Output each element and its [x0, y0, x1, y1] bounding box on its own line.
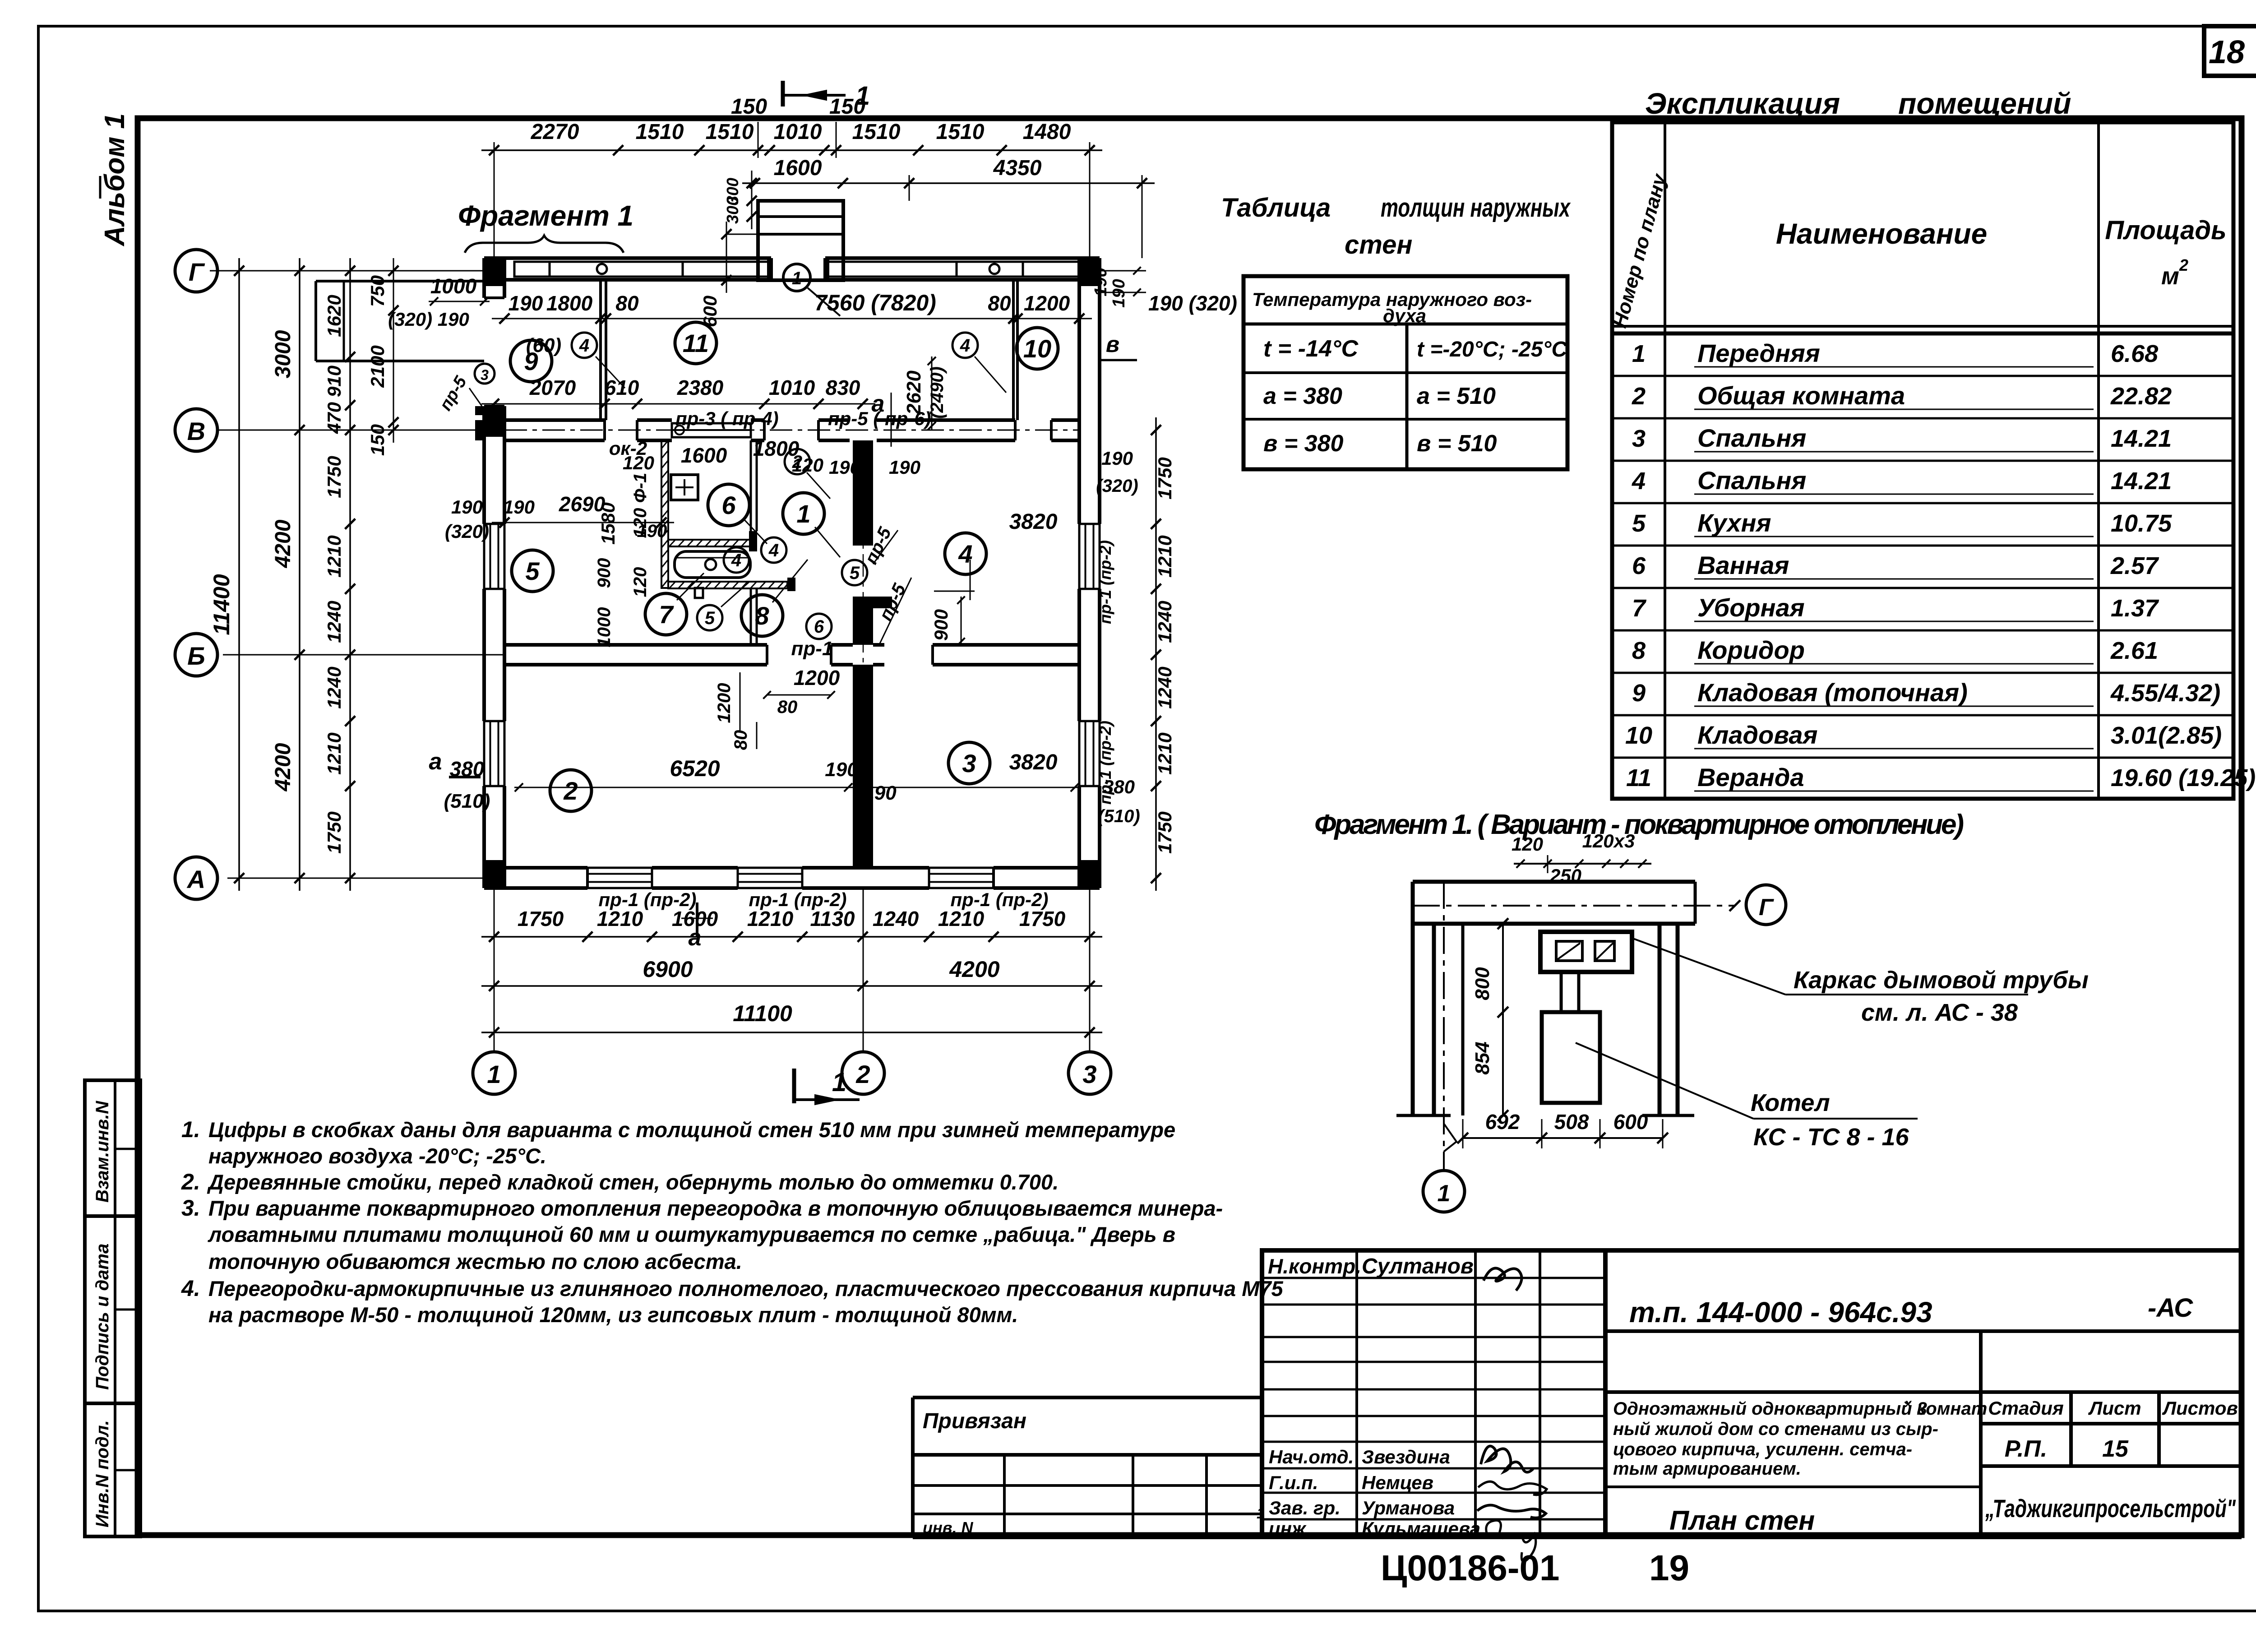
svg-text:190: 190 [889, 457, 920, 478]
svg-text:10.75: 10.75 [2111, 510, 2172, 537]
svg-text:3: 3 [962, 749, 976, 777]
svg-text:11400: 11400 [209, 574, 234, 635]
svg-text:7560 (7820): 7560 (7820) [814, 290, 936, 315]
svg-text:1580: 1580 [597, 502, 619, 544]
svg-text:8: 8 [1632, 637, 1646, 664]
svg-text:4200: 4200 [271, 743, 295, 791]
svg-text:Султанов: Султанов [1362, 1254, 1474, 1278]
svg-text:(320) 190: (320) 190 [388, 309, 469, 330]
svg-text:Спальня: Спальня [1697, 466, 1806, 495]
svg-text:Площадь: Площадь [2105, 216, 2226, 245]
svg-text:Урманова: Урманова [1362, 1497, 1455, 1518]
svg-text:1: 1 [832, 1068, 846, 1097]
svg-text:190: 190 [503, 496, 535, 518]
svg-text:4: 4 [768, 541, 779, 560]
svg-text:1240: 1240 [1154, 601, 1175, 643]
svg-text:1210: 1210 [1154, 732, 1175, 774]
svg-text:Зав. гр.: Зав. гр. [1269, 1497, 1341, 1518]
svg-text:9: 9 [524, 347, 538, 375]
svg-text:1750: 1750 [1154, 811, 1175, 853]
svg-text:5: 5 [850, 563, 860, 583]
svg-text:а: а [429, 749, 442, 775]
svg-text:А: А [186, 865, 205, 893]
svg-text:80: 80 [731, 730, 751, 750]
svg-text:1510: 1510 [852, 120, 901, 144]
svg-text:4200: 4200 [949, 957, 999, 982]
svg-text:тым армированием.: тым армированием. [1613, 1459, 1801, 1479]
svg-text:3820: 3820 [1009, 510, 1058, 534]
svg-text:11100: 11100 [733, 1001, 792, 1026]
svg-text:8: 8 [755, 602, 769, 630]
svg-text:в = 510: в = 510 [1417, 430, 1497, 457]
svg-text:190 (320): 190 (320) [1148, 292, 1237, 315]
svg-text:топочную обиваются жестью: топочную обиваются жестью по слою асбест… [208, 1249, 742, 1273]
svg-text:120: 120 [630, 567, 650, 597]
svg-text:ловатными плитами толщиной: ловатными плитами толщиной 60 мм и оштук… [208, 1222, 1175, 1246]
svg-text:Одноэтажный одноквартирный 3: Одноэтажный одноквартирный 3 [1613, 1399, 1927, 1419]
svg-text:а = 380: а = 380 [1263, 383, 1342, 409]
svg-text:5: 5 [1632, 510, 1646, 537]
svg-text:1210: 1210 [324, 535, 345, 577]
svg-text:3: 3 [1082, 1060, 1096, 1088]
svg-text:1: 1 [1438, 1180, 1451, 1207]
svg-text:(320): (320) [1096, 476, 1138, 496]
svg-text:1000: 1000 [594, 607, 614, 648]
svg-text:в: в [1106, 332, 1119, 357]
svg-text:6: 6 [814, 617, 824, 637]
svg-text:1210: 1210 [1154, 535, 1175, 577]
svg-text:Немцев: Немцев [1362, 1472, 1433, 1493]
svg-text:1210: 1210 [938, 907, 985, 930]
svg-text:18: 18 [2209, 34, 2245, 70]
svg-text:6: 6 [721, 491, 736, 519]
svg-text:стен: стен [1345, 230, 1412, 259]
svg-text:19: 19 [1649, 1548, 1689, 1588]
svg-text:7: 7 [1632, 595, 1647, 622]
svg-text:Б: Б [187, 642, 205, 670]
svg-text:1.: 1. [181, 1117, 200, 1142]
svg-text:120 Ф-1: 120 Ф-1 [630, 473, 650, 538]
svg-text:120х3: 120х3 [1582, 830, 1635, 851]
svg-text:х: х [1904, 1396, 1912, 1410]
svg-text:1200: 1200 [714, 683, 734, 723]
svg-text:а = 510: а = 510 [1417, 383, 1496, 409]
svg-text:4200: 4200 [271, 519, 295, 568]
svg-text:комнат: комнат [1917, 1399, 1987, 1419]
svg-text:Передняя: Передняя [1697, 339, 1820, 367]
svg-text:см. л. АС - 38: см. л. АС - 38 [1861, 999, 2018, 1026]
svg-text:1: 1 [796, 500, 810, 528]
svg-text:2: 2 [792, 452, 802, 472]
svg-text:2100: 2100 [367, 345, 388, 388]
svg-text:380: 380 [450, 757, 485, 781]
svg-text:5: 5 [525, 557, 540, 585]
svg-text:План стен: План стен [1669, 1505, 1815, 1536]
svg-text:Уборная: Уборная [1697, 593, 1805, 622]
svg-text:„Таджикгипросельстрой": „Таджикгипросельстрой" [1985, 1494, 2236, 1522]
svg-text:610: 610 [605, 376, 639, 399]
svg-text:19.60 (19.25): 19.60 (19.25) [2111, 764, 2256, 791]
svg-text:600: 600 [1613, 1110, 1648, 1134]
svg-text:пр-3 ( пр-4): пр-3 ( пр-4) [675, 408, 779, 429]
svg-text:t =-20°С; -25°С: t =-20°С; -25°С [1417, 338, 1567, 361]
svg-text:1750: 1750 [324, 456, 345, 498]
svg-text:1600: 1600 [672, 907, 718, 930]
svg-text:Веранда: Веранда [1697, 763, 1804, 791]
svg-text:Кладовая (топочная): Кладовая (топочная) [1697, 678, 1968, 707]
svg-text:1240: 1240 [324, 601, 345, 643]
svg-text:пр-1: пр-1 [791, 638, 833, 660]
svg-text:1210: 1210 [747, 907, 794, 930]
svg-text:1: 1 [487, 1060, 501, 1088]
svg-text:1: 1 [792, 268, 802, 288]
svg-text:1510: 1510 [706, 120, 754, 144]
svg-text:910: 910 [324, 366, 345, 397]
svg-text:Каркас дымовой трубы: Каркас дымовой трубы [1794, 967, 2089, 994]
svg-text:508: 508 [1554, 1110, 1589, 1134]
svg-text:1600: 1600 [774, 156, 822, 180]
svg-text:Стадия: Стадия [1988, 1397, 2063, 1419]
svg-text:300: 300 [723, 197, 742, 224]
svg-text:Наименование: Наименование [1776, 217, 1987, 250]
svg-text:120: 120 [1512, 833, 1543, 855]
svg-text:(2490): (2490) [927, 366, 947, 419]
svg-text:2270: 2270 [531, 120, 579, 144]
svg-text:4: 4 [579, 336, 589, 356]
svg-text:в = 380: в = 380 [1263, 430, 1344, 457]
svg-text:1: 1 [1632, 340, 1646, 367]
svg-text:190: 190 [829, 457, 860, 478]
svg-text:900: 900 [930, 609, 952, 641]
svg-text:Перегородки-армокирпичные из: Перегородки-армокирпичные из глиняного п… [208, 1277, 1283, 1300]
svg-text:1200: 1200 [1024, 292, 1070, 315]
svg-text:2380: 2380 [677, 376, 724, 399]
svg-text:1.37: 1.37 [2111, 595, 2159, 622]
svg-text:1510: 1510 [936, 120, 985, 144]
svg-text:11: 11 [1626, 764, 1651, 791]
svg-text:2.61: 2.61 [2110, 637, 2158, 664]
svg-text:470: 470 [324, 402, 345, 434]
svg-text:15: 15 [2102, 1436, 2129, 1462]
svg-text:1240: 1240 [873, 907, 919, 930]
svg-text:2070: 2070 [529, 376, 576, 399]
svg-text:1620: 1620 [324, 295, 345, 337]
svg-text:1800: 1800 [546, 292, 593, 315]
svg-text:830: 830 [826, 376, 860, 399]
svg-text:Экспликация: Экспликация [1645, 87, 1840, 120]
svg-text:6.68: 6.68 [2111, 340, 2158, 367]
svg-text:КС - ТС 8 - 16: КС - ТС 8 - 16 [1753, 1124, 1909, 1151]
svg-text:Звездина: Звездина [1362, 1446, 1450, 1467]
svg-text:854: 854 [1471, 1041, 1493, 1074]
svg-text:Коридор: Коридор [1697, 636, 1805, 664]
svg-text:Взам.инв.N: Взам.инв.N [92, 1101, 112, 1203]
svg-text:1510: 1510 [636, 120, 684, 144]
svg-text:Цифры в скобках даны для: Цифры в скобках даны для варианта с толщ… [208, 1118, 1175, 1142]
svg-text:1010: 1010 [774, 120, 822, 144]
svg-text:2: 2 [855, 1060, 870, 1088]
svg-text:190: 190 [509, 292, 543, 315]
svg-text:Общая комната: Общая комната [1697, 381, 1905, 410]
svg-text:1240: 1240 [324, 666, 345, 708]
svg-text:190: 190 [1110, 279, 1128, 307]
svg-text:1750: 1750 [324, 811, 345, 853]
svg-text:150: 150 [367, 424, 388, 456]
svg-text:6900: 6900 [643, 957, 693, 982]
svg-text:4: 4 [960, 336, 970, 356]
svg-text:2: 2 [1632, 383, 1646, 410]
svg-text:4: 4 [731, 551, 741, 570]
svg-text:4: 4 [958, 540, 972, 568]
svg-text:1210: 1210 [597, 907, 643, 930]
svg-text:3: 3 [481, 367, 489, 383]
svg-text:м: м [2161, 263, 2179, 290]
svg-text:Нач.отд.: Нач.отд. [1269, 1446, 1354, 1467]
svg-text:ок-2: ок-2 [609, 438, 647, 459]
svg-text:t = -14°С: t = -14°С [1263, 336, 1359, 362]
svg-text:7: 7 [659, 600, 674, 629]
svg-text:750: 750 [367, 275, 388, 307]
svg-text:(510): (510) [1098, 806, 1140, 826]
svg-text:Котел: Котел [1751, 1089, 1830, 1116]
svg-text:Г: Г [1759, 894, 1774, 921]
svg-text:3.: 3. [181, 1195, 200, 1221]
svg-text:Кладовая: Кладовая [1697, 721, 1817, 749]
svg-text:3.01(2.85): 3.01(2.85) [2111, 722, 2222, 749]
svg-text:(320): (320) [445, 521, 489, 542]
svg-text:ный жилой дом со стенами: ный жилой дом со стенами из сыр- [1613, 1419, 1938, 1439]
svg-text:9: 9 [1632, 680, 1646, 707]
svg-text:При варианте поквартирного: При варианте поквартирного отопления пер… [208, 1196, 1223, 1220]
svg-text:3: 3 [1632, 425, 1646, 452]
svg-text:Фрагмент 1: Фрагмент 1 [458, 199, 633, 232]
svg-text:5: 5 [705, 608, 715, 628]
svg-text:Г.и.п.: Г.и.п. [1269, 1472, 1318, 1493]
svg-text:В: В [187, 417, 205, 445]
svg-text:6520: 6520 [670, 756, 720, 781]
svg-text:2620: 2620 [903, 370, 925, 415]
svg-text:-АС: -АС [2148, 1293, 2193, 1323]
svg-text:толщин наружных: толщин наружных [1381, 193, 1571, 222]
svg-text:190: 190 [451, 496, 483, 518]
svg-text:800: 800 [1471, 967, 1493, 1000]
svg-text:Таблица: Таблица [1221, 193, 1331, 222]
svg-text:Листов: Листов [2162, 1397, 2238, 1419]
svg-text:80: 80 [988, 292, 1011, 315]
svg-text:3000: 3000 [271, 330, 295, 378]
svg-text:наружного воздуха -20°С; -2: наружного воздуха -20°С; -25°С. [208, 1144, 546, 1168]
svg-text:1000: 1000 [430, 274, 477, 298]
svg-text:150: 150 [731, 95, 767, 119]
svg-text:80: 80 [615, 292, 639, 315]
svg-text:14.21: 14.21 [2111, 467, 2172, 495]
svg-text:692: 692 [1485, 1110, 1520, 1134]
svg-text:помещений: помещений [1898, 87, 2071, 120]
svg-text:4.55/4.32): 4.55/4.32) [2110, 680, 2220, 707]
svg-text:1: 1 [855, 81, 870, 111]
svg-text:2.57: 2.57 [2110, 552, 2159, 579]
svg-text:1200: 1200 [794, 666, 840, 689]
svg-text:10: 10 [1023, 334, 1051, 363]
svg-text:Привязан: Привязан [923, 1409, 1026, 1433]
svg-text:4350: 4350 [993, 156, 1042, 180]
svg-text:11: 11 [683, 329, 709, 357]
svg-text:4.: 4. [181, 1276, 200, 1301]
svg-text:2.: 2. [181, 1169, 200, 1194]
svg-text:1210: 1210 [324, 732, 345, 774]
svg-text:3820: 3820 [1009, 750, 1058, 774]
svg-text:14.21: 14.21 [2111, 425, 2172, 452]
svg-text:1480: 1480 [1023, 120, 1071, 144]
svg-text:1240: 1240 [1154, 666, 1175, 708]
svg-text:900: 900 [594, 558, 614, 588]
svg-text:2: 2 [2179, 256, 2188, 274]
svg-text:Подпись и дата: Подпись и дата [92, 1244, 112, 1390]
svg-text:а: а [872, 391, 885, 417]
svg-text:1750: 1750 [518, 907, 564, 930]
svg-text:пр-1 (пр-2): пр-1 (пр-2) [1096, 540, 1114, 624]
svg-text:Лист: Лист [2088, 1397, 2141, 1419]
svg-text:Деревянные стойки, перед кла: Деревянные стойки, перед кладкой стен, о… [207, 1170, 1059, 1194]
svg-text:Ванная: Ванная [1697, 551, 1789, 579]
svg-text:Альбом 1: Альбом 1 [99, 113, 130, 247]
svg-text:т.п. 144-000 - 964с.93: т.п. 144-000 - 964с.93 [1629, 1296, 1932, 1328]
svg-text:80: 80 [777, 697, 798, 717]
svg-text:6: 6 [1632, 552, 1646, 579]
svg-text:Н.контр.: Н.контр. [1268, 1254, 1361, 1278]
svg-text:1750: 1750 [1019, 907, 1066, 930]
svg-text:пр-1 (пр-2): пр-1 (пр-2) [1096, 721, 1114, 805]
svg-text:1130: 1130 [810, 907, 855, 930]
svg-text:190: 190 [863, 782, 897, 804]
svg-text:(510): (510) [444, 790, 490, 812]
svg-text:Р.П.: Р.П. [2005, 1436, 2047, 1462]
svg-text:Фрагмент 1. ( Вариант - поква: Фрагмент 1. ( Вариант - поквартирное ото… [1314, 809, 1964, 840]
svg-text:10: 10 [1625, 722, 1652, 749]
svg-text:190: 190 [1101, 448, 1133, 469]
svg-text:цового кирпича, усиленн.: цового кирпича, усиленн. сетча- [1613, 1439, 1912, 1459]
svg-text:духа: духа [1383, 305, 1426, 326]
svg-text:на растворе М-50 - толщино: на растворе М-50 - толщиной 120мм, из ги… [208, 1303, 1018, 1327]
svg-text:Г: Г [189, 258, 205, 286]
svg-text:4: 4 [1632, 467, 1646, 495]
svg-text:190: 190 [825, 759, 858, 781]
svg-text:1600: 1600 [681, 444, 727, 467]
svg-text:22.82: 22.82 [2110, 383, 2172, 410]
svg-text:Спальня: Спальня [1697, 424, 1806, 452]
svg-text:2: 2 [563, 777, 578, 805]
svg-text:Инв.N подл.: Инв.N подл. [92, 1420, 112, 1527]
svg-text:1010: 1010 [769, 376, 815, 399]
svg-text:Кухня: Кухня [1697, 509, 1771, 537]
svg-text:1750: 1750 [1154, 457, 1175, 499]
